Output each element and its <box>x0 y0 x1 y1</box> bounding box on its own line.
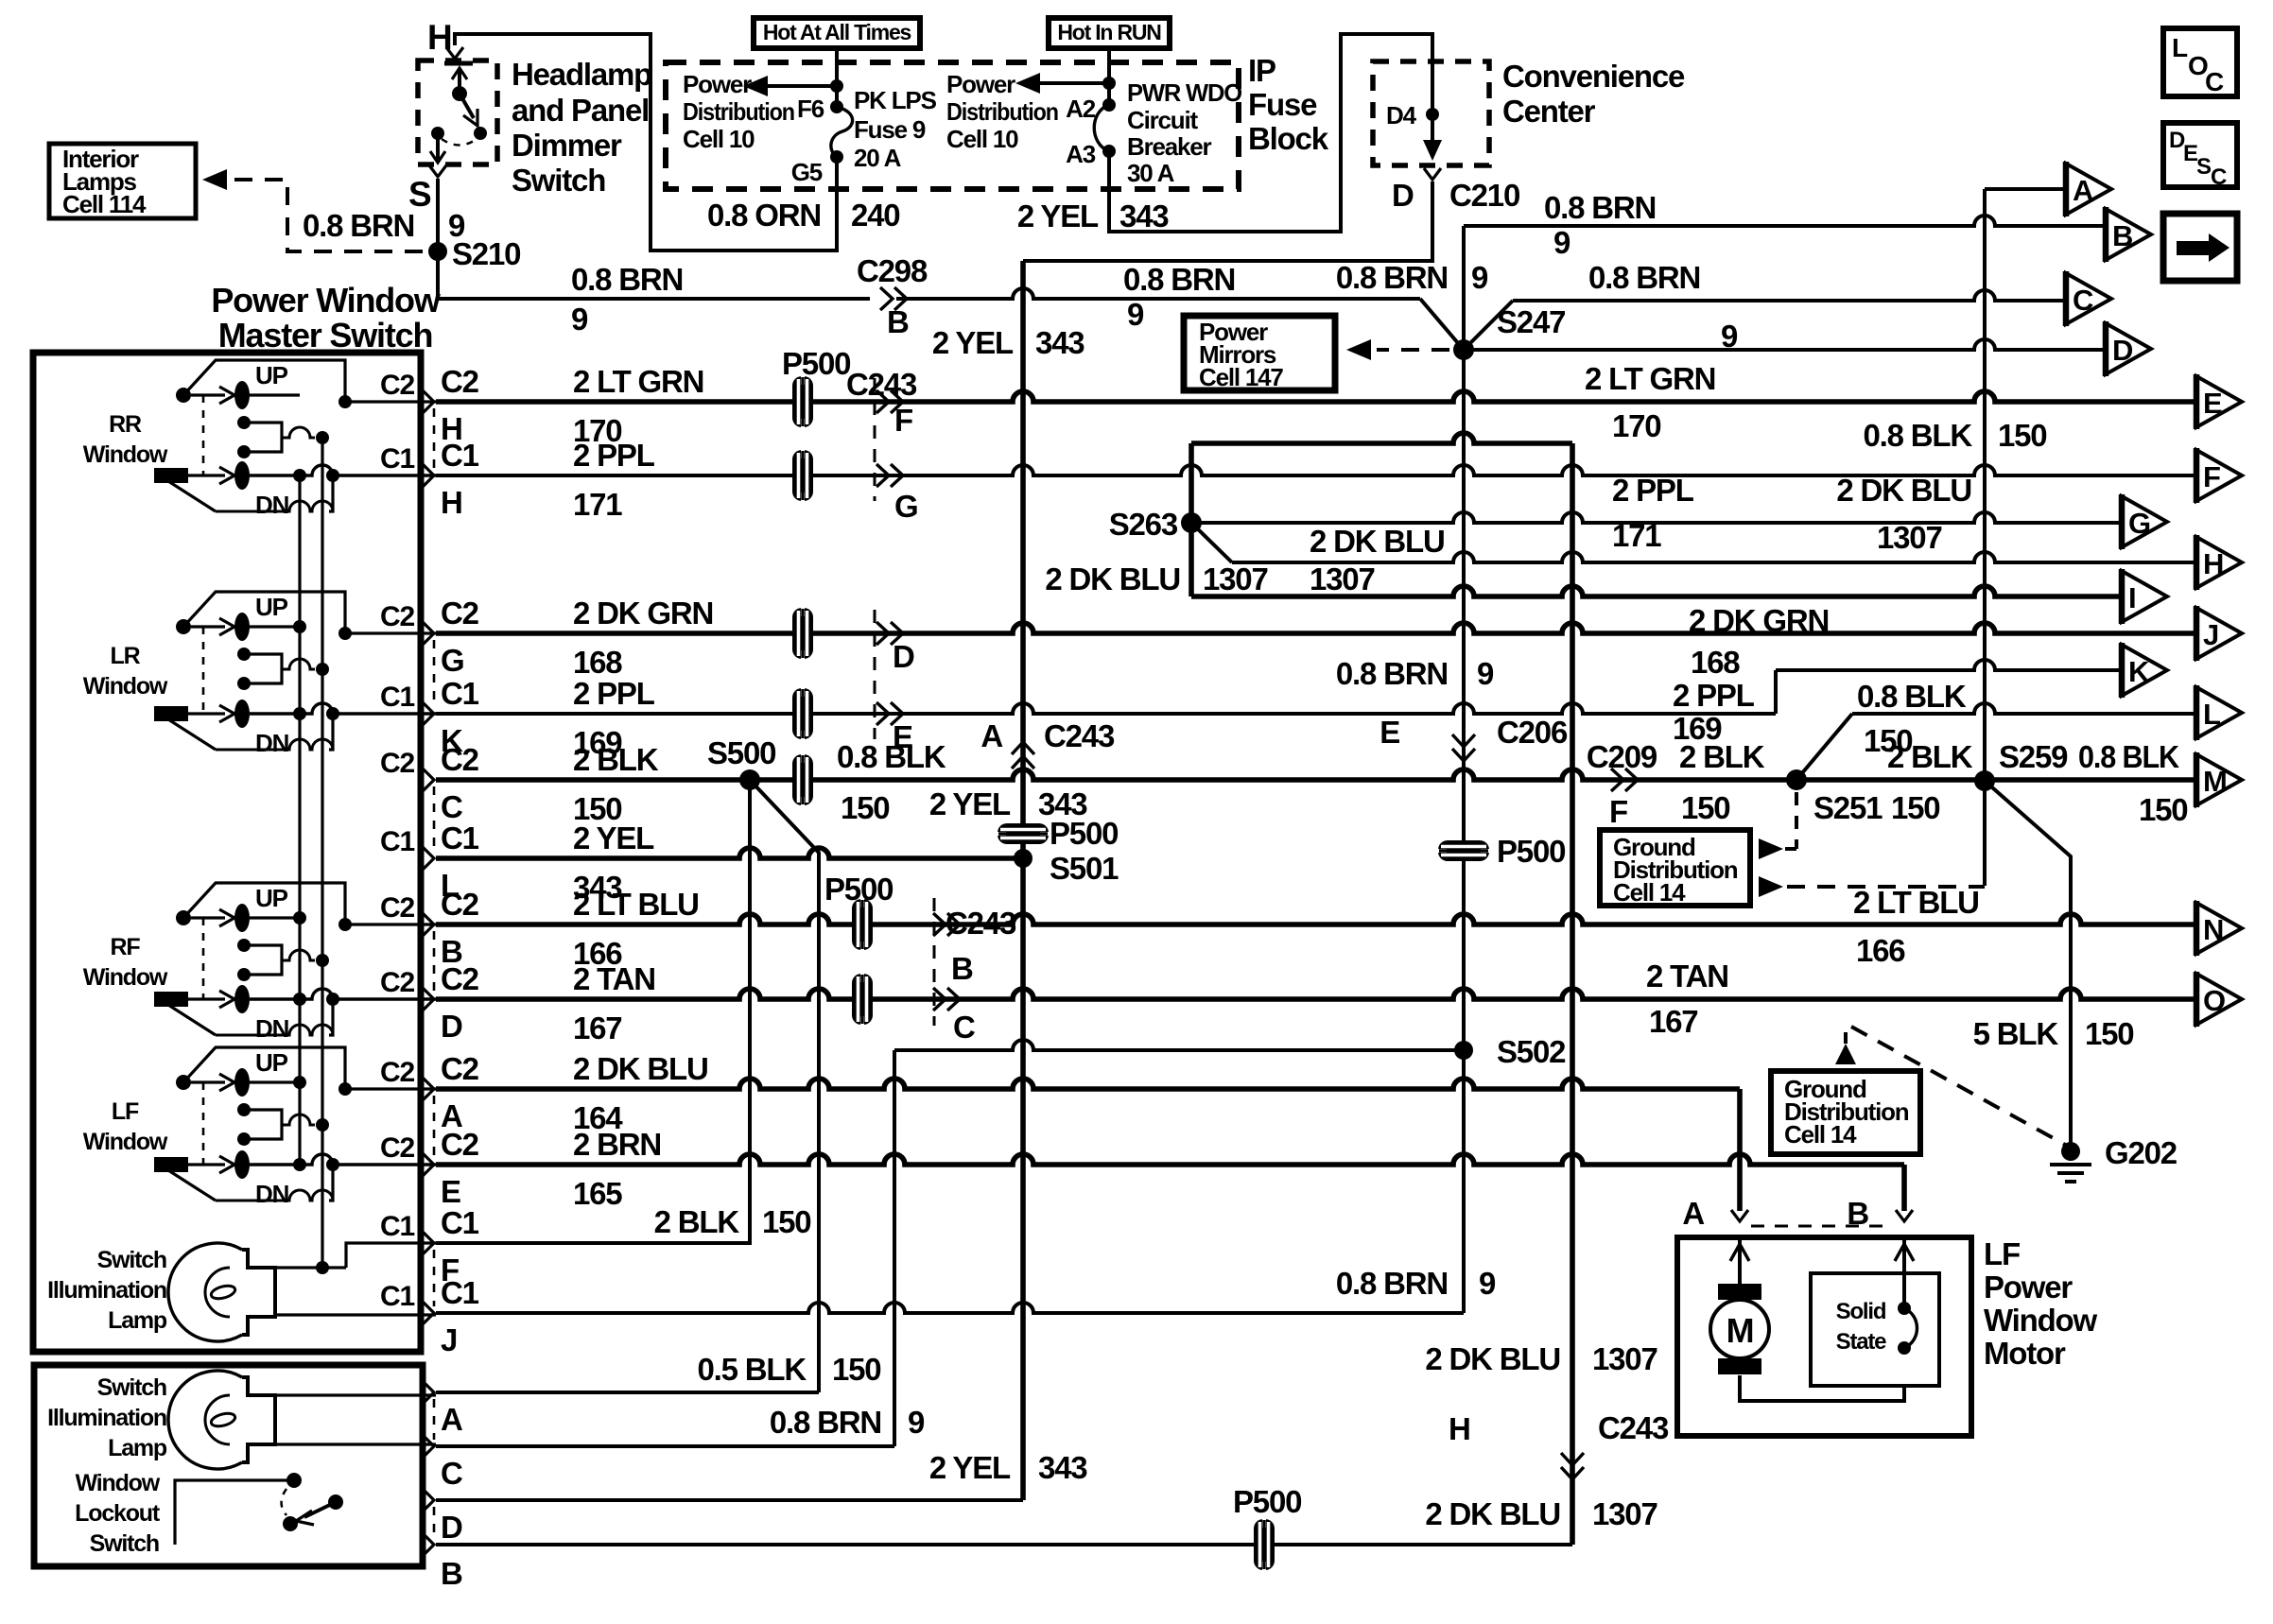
lower lamp bottom terminal wire <box>275 1443 436 1445</box>
LR window switch UP contact row <box>176 613 306 641</box>
svg-text:Convenience: Convenience <box>1502 59 1685 94</box>
LR dashed actuator link <box>202 627 205 714</box>
splice S247 <box>1453 339 1474 360</box>
svg-text:H: H <box>1449 1411 1470 1446</box>
dimmer switch contact dot S <box>431 127 444 140</box>
row pin B y978 labels <box>380 887 479 969</box>
svg-text:9: 9 <box>1127 297 1144 332</box>
svg-text:C: C <box>441 1456 462 1491</box>
Hot In RUN box <box>1049 18 1170 48</box>
motor B lead with arrow <box>1895 1237 1914 1308</box>
svg-text:Power: Power <box>1984 1270 2073 1304</box>
motor M symbol <box>1710 1284 1769 1374</box>
svg-text:H: H <box>441 485 462 520</box>
svg-text:2 BLK: 2 BLK <box>1679 739 1765 774</box>
svg-text:S251: S251 <box>1813 790 1883 825</box>
svg-text:Lockout: Lockout <box>75 1500 161 1527</box>
dimmer switch arrow to S terminal <box>430 137 445 163</box>
dashed connector line at motor <box>1751 1225 1893 1228</box>
svg-text:A: A <box>980 718 1002 753</box>
dimmer switch pivot dot <box>452 86 467 101</box>
svg-text:0.8 BRN: 0.8 BRN <box>571 262 683 297</box>
svg-text:Window: Window <box>83 1129 168 1155</box>
svg-text:150: 150 <box>1864 723 1912 758</box>
svg-text:2 BLK: 2 BLK <box>654 1204 740 1239</box>
svg-text:C2: C2 <box>441 887 479 922</box>
svg-text:S263: S263 <box>1109 507 1178 542</box>
row pin L y908 labels <box>380 821 479 903</box>
svg-text:Cell 14: Cell 14 <box>1784 1120 1857 1149</box>
connector chevron H <box>446 47 463 59</box>
svg-text:Solid: Solid <box>1836 1299 1886 1324</box>
LOC legend box <box>2163 28 2237 96</box>
svg-text:C1: C1 <box>380 682 414 713</box>
splice S500 <box>739 769 760 790</box>
svg-text:150: 150 <box>762 1204 810 1239</box>
svg-text:Block: Block <box>1248 121 1329 156</box>
solid state box <box>1811 1273 1939 1386</box>
svg-text:1307: 1307 <box>1592 1341 1657 1376</box>
RF DN contact row <box>154 985 436 1013</box>
dashed connector boundary links at box edge <box>433 408 436 1306</box>
label Ground Distribution Cell 14 lower <box>1784 1075 1909 1149</box>
connector chevron row K y755 <box>422 701 434 726</box>
svg-text:150: 150 <box>1681 790 1729 825</box>
vertical wire 0.8 BLK 150 to S259 <box>1983 189 1987 886</box>
motor connector chevron B <box>1896 1210 1913 1221</box>
svg-text:2 DK BLU: 2 DK BLU <box>1045 561 1180 596</box>
svg-text:Switch: Switch <box>90 1530 159 1557</box>
splice S259 <box>1974 770 1995 791</box>
wire into D4 <box>1431 57 1434 114</box>
wire hot-in-run feed to breaker A2 <box>1107 48 1111 105</box>
connector chevron row A y1152 <box>422 1077 434 1101</box>
svg-text:9: 9 <box>908 1405 925 1440</box>
wire row 164 2 DK BLU <box>436 1079 1740 1089</box>
wire row 165 2 BRN <box>436 1154 1904 1165</box>
connector C298 <box>880 287 893 310</box>
svg-text:Distribution: Distribution <box>946 97 1058 126</box>
svg-text:UP: UP <box>255 593 288 621</box>
LF dashed actuator link <box>202 1082 205 1165</box>
svg-text:Center: Center <box>1502 94 1596 129</box>
RR dashed actuator link <box>202 395 205 475</box>
connector C243 B on row N <box>933 913 946 936</box>
LR window label <box>83 643 168 700</box>
svg-text:DN: DN <box>255 1180 289 1208</box>
connector C243 E on row K <box>876 702 889 725</box>
internal vertical wire common 2 <box>321 438 323 1268</box>
splice S502 <box>1454 1041 1473 1060</box>
RR window switch UP contact row <box>176 381 300 409</box>
label PK LPS Fuse 9 20 A <box>854 86 937 172</box>
svg-text:C1: C1 <box>441 821 479 855</box>
label Solid State <box>1836 1299 1887 1355</box>
lower lamp top terminal wire <box>275 1393 436 1396</box>
svg-text:Switch: Switch <box>97 1374 166 1401</box>
motor A lead with arrow <box>1730 1237 1749 1284</box>
svg-text:C1: C1 <box>441 438 479 473</box>
connector C243 F on row E <box>876 390 889 413</box>
svg-text:C298: C298 <box>857 253 928 288</box>
svg-text:UP: UP <box>255 1048 288 1077</box>
label Convenience Center <box>1502 59 1685 129</box>
label Power Distribution Cell 10 left <box>683 70 794 153</box>
svg-text:RF: RF <box>111 934 141 960</box>
svg-text:D: D <box>893 639 914 674</box>
LF slant bottom wire <box>168 1158 339 1201</box>
svg-text:Dimmer: Dimmer <box>512 128 622 163</box>
arrow to Power Mirrors <box>1346 339 1371 360</box>
wire 0.8 BRN 9 from C210 down to junction with V1 <box>1023 181 1432 261</box>
splice S263 <box>1181 512 1202 533</box>
svg-text:2 DK BLU: 2 DK BLU <box>1836 473 1971 508</box>
wire row M 2 BLK 150 <box>436 769 2196 780</box>
svg-text:167: 167 <box>1649 1004 1697 1039</box>
svg-text:Hot In RUN: Hot In RUN <box>1057 20 1161 44</box>
svg-text:20 A: 20 A <box>854 144 902 172</box>
svg-text:2 LT GRN: 2 LT GRN <box>1585 361 1715 396</box>
inline connector P500 on row K <box>792 688 813 739</box>
circuit breaker arc <box>1094 105 1109 151</box>
svg-text:171: 171 <box>1612 518 1661 553</box>
svg-text:UP: UP <box>255 884 288 912</box>
connector chevron row H y425 <box>422 389 434 414</box>
LF DN contact row <box>154 1150 436 1179</box>
inline connector P500 on row J <box>792 608 813 659</box>
svg-text:Motor: Motor <box>1984 1336 2066 1371</box>
DESC legend box <box>2163 123 2237 190</box>
upper lamp bottom terminal wire <box>275 1313 436 1316</box>
svg-text:C: C <box>2073 284 2093 317</box>
svg-text:C: C <box>2205 67 2224 96</box>
breaker terminal A2 <box>1102 98 1116 112</box>
svg-text:P500: P500 <box>782 346 850 381</box>
svg-text:B: B <box>951 951 973 986</box>
svg-text:Cell 10: Cell 10 <box>946 125 1018 153</box>
connector chevron S <box>429 165 446 177</box>
svg-text:0.8 ORN: 0.8 ORN <box>707 198 821 233</box>
svg-text:D: D <box>441 1510 462 1545</box>
svg-text:166: 166 <box>1856 933 1905 968</box>
svg-text:C1: C1 <box>441 676 479 711</box>
lower box row D 2 YEL 343 <box>422 1488 1023 1545</box>
window lockout switch label <box>75 1470 161 1557</box>
connector chevron row J y1389 <box>422 1301 434 1325</box>
svg-text:2 DK BLU: 2 DK BLU <box>573 1051 708 1086</box>
svg-text:C1: C1 <box>380 1211 414 1242</box>
row pin H y425 labels <box>380 364 479 446</box>
svg-text:State: State <box>1836 1329 1887 1355</box>
dashed connector line C243 rows JK <box>874 610 876 739</box>
svg-text:O: O <box>2203 984 2225 1017</box>
svg-text:Window: Window <box>83 673 168 700</box>
svg-text:C1: C1 <box>380 443 414 475</box>
svg-text:G: G <box>894 489 917 524</box>
connector C243 H on V3 <box>1561 1453 1584 1465</box>
svg-text:9: 9 <box>571 302 588 337</box>
wire row J 2 DK GRN 168 <box>436 623 2196 633</box>
svg-text:2 PPL: 2 PPL <box>573 676 655 711</box>
svg-text:DN: DN <box>255 729 289 757</box>
svg-text:DN: DN <box>255 1014 289 1043</box>
RF slant bottom wire <box>168 993 339 1035</box>
svg-text:Cell 14: Cell 14 <box>1613 878 1686 907</box>
row pin G y670 labels <box>380 596 479 678</box>
wire row N 2 LT BLU 166 <box>436 914 2196 924</box>
wire 0.8 BRN 9 from S210 to C298 to S247 <box>438 288 1464 350</box>
svg-text:C2: C2 <box>380 967 414 998</box>
svg-text:2 PPL: 2 PPL <box>1673 678 1755 713</box>
destination arrow C <box>2066 271 2111 326</box>
svg-text:2 BLK: 2 BLK <box>573 742 659 777</box>
svg-text:0.5 BLK: 0.5 BLK <box>698 1352 807 1387</box>
svg-text:C1: C1 <box>380 826 414 857</box>
LF window label <box>83 1098 168 1155</box>
svg-text:DN: DN <box>255 491 289 519</box>
splice S210 <box>428 242 447 261</box>
row pin H y503 labels <box>380 438 479 520</box>
svg-text:C2: C2 <box>380 1057 414 1088</box>
svg-text:2 DK BLU: 2 DK BLU <box>1425 1496 1560 1531</box>
svg-text:F: F <box>1609 794 1627 829</box>
svg-text:0.8 BRN: 0.8 BRN <box>1336 260 1448 295</box>
svg-text:H: H <box>2203 547 2223 580</box>
inline connector P500 on vertical 1548 <box>1438 840 1489 861</box>
svg-text:2 TAN: 2 TAN <box>1646 959 1728 993</box>
svg-text:E: E <box>1379 715 1399 750</box>
switch illumination lamp lower label <box>47 1374 167 1461</box>
RR center contacts <box>237 416 329 458</box>
svg-text:0.8 BLK: 0.8 BLK <box>837 739 946 774</box>
connector C243 G on row F <box>876 464 889 487</box>
svg-text:0.8 BRN: 0.8 BRN <box>770 1405 881 1440</box>
wire row O 2 TAN 167 <box>436 989 2196 999</box>
arrow above lower ground distribution box <box>1835 1044 1856 1064</box>
connector C243 A on V1 <box>1012 756 1034 769</box>
svg-text:A3: A3 <box>1066 140 1096 168</box>
svg-text:UP: UP <box>255 361 288 389</box>
svg-text:LR: LR <box>111 643 141 669</box>
RR slant top wire to C2 exit <box>183 360 436 408</box>
svg-text:0.8 BRN: 0.8 BRN <box>1336 656 1448 691</box>
svg-text:Cell 10: Cell 10 <box>683 125 755 153</box>
svg-text:9: 9 <box>1471 260 1488 295</box>
svg-text:G: G <box>2128 507 2150 540</box>
dashed connector line C243 rows EF <box>874 378 876 501</box>
arrow to Power Distribution left <box>743 76 837 96</box>
inline connector P500 on row O <box>852 974 873 1025</box>
svg-text:343: 343 <box>1119 199 1169 233</box>
dashed connector links lower box <box>433 1399 436 1538</box>
wire row I 2 DK BLU 1307 from S263 vertical <box>1191 586 2122 596</box>
svg-text:M: M <box>2203 765 2227 798</box>
wire row 150 2 BLK to S500 vertical <box>436 786 750 1243</box>
RF window label <box>83 934 168 991</box>
Interior Lamps Cell 114 box <box>49 144 196 218</box>
dimmer switch dashed travel arc <box>442 139 477 146</box>
svg-text:Window: Window <box>76 1470 161 1496</box>
window lockout switch <box>175 1473 343 1545</box>
destination arrow O <box>2196 972 2242 1027</box>
wire diagonal S251 to L row 0.8 BLK <box>1796 703 2196 780</box>
connector chevron row H y503 <box>422 463 434 488</box>
label Power Distribution Cell 10 right <box>946 70 1058 153</box>
LF window switch UP contact row <box>176 1068 306 1097</box>
svg-text:D: D <box>1392 178 1414 213</box>
svg-text:Switch: Switch <box>97 1247 166 1273</box>
svg-text:Lamp: Lamp <box>108 1307 167 1334</box>
wire 165 riser to motor B <box>1901 1165 1907 1211</box>
svg-text:2 DK GRN: 2 DK GRN <box>1689 603 1829 638</box>
svg-text:Lamp: Lamp <box>108 1435 167 1461</box>
switch illumination lamp upper bulb symbol <box>168 1243 275 1341</box>
motor connector chevron A <box>1731 1210 1748 1221</box>
dimmer switch arrow to H contact <box>452 68 467 92</box>
terminal dot D4 <box>1426 108 1439 121</box>
svg-text:RR: RR <box>109 411 142 438</box>
svg-text:J: J <box>2203 618 2218 651</box>
svg-text:2 PPL: 2 PPL <box>1612 473 1694 508</box>
wire 164 riser to motor A <box>1737 1089 1743 1211</box>
wire row 2 YEL 343 to S501 <box>436 848 1023 858</box>
svg-text:S247: S247 <box>1497 304 1565 339</box>
svg-text:2 YEL: 2 YEL <box>932 325 1014 360</box>
svg-text:150: 150 <box>841 790 889 825</box>
svg-text:9: 9 <box>1479 1266 1496 1301</box>
svg-text:5 BLK: 5 BLK <box>1973 1016 2059 1051</box>
svg-text:2 LT GRN: 2 LT GRN <box>573 364 703 399</box>
switch illumination lamp upper label <box>47 1247 167 1334</box>
arrow to Interior Lamps <box>202 169 227 190</box>
svg-text:C2: C2 <box>441 1127 479 1162</box>
solid state contacts <box>1898 1302 1917 1355</box>
svg-text:2 LT BLU: 2 LT BLU <box>1853 885 1979 920</box>
svg-text:A2: A2 <box>1066 95 1096 123</box>
destination arrow N <box>2196 901 2242 956</box>
destination arrow K <box>2122 643 2167 698</box>
dimmer switch contact T-bar <box>444 61 473 66</box>
svg-text:F6: F6 <box>797 95 824 123</box>
svg-text:Power: Power <box>683 70 752 98</box>
svg-text:Breaker: Breaker <box>1127 132 1212 161</box>
svg-text:C1: C1 <box>441 1275 479 1310</box>
svg-text:0.8 BLK: 0.8 BLK <box>2078 739 2179 774</box>
wire 2 DK BLU 1307 vertical at S263 <box>1189 443 1194 596</box>
splice S251 <box>1786 769 1807 790</box>
svg-text:Window: Window <box>83 964 168 991</box>
ground distribution cell 14 box upper <box>1600 830 1750 906</box>
inline connector P500 on row M <box>792 754 813 805</box>
row pin C y825 labels <box>380 742 479 824</box>
inline connector P500 on row E <box>792 376 813 427</box>
wire row K-L 2 PPL 169 with jog to K arrow <box>436 660 2122 714</box>
RR DN contact row <box>154 461 436 490</box>
arrow from ground distribution to S251 branch <box>1759 838 1783 859</box>
svg-text:Cell 147: Cell 147 <box>1199 363 1283 391</box>
svg-text:G202: G202 <box>2105 1135 2178 1170</box>
svg-text:C2: C2 <box>380 601 414 632</box>
destination arrow G <box>2122 494 2167 549</box>
svg-text:C2: C2 <box>441 596 479 631</box>
svg-text:165: 165 <box>573 1176 622 1211</box>
svg-text:C2: C2 <box>380 748 414 779</box>
fuse terminal G5 <box>830 150 843 164</box>
svg-text:30 A: 30 A <box>1127 159 1175 187</box>
power window master switch box <box>33 353 421 1352</box>
vertical wire 0.8 BRN 9 S247 to S502 to J-row corner <box>1462 350 1466 1313</box>
connector C209 on row M <box>1611 769 1623 791</box>
svg-text:C: C <box>953 1010 975 1045</box>
svg-text:2 YEL: 2 YEL <box>573 821 654 855</box>
svg-text:A: A <box>2073 174 2093 207</box>
RF dashed actuator link <box>202 918 205 999</box>
svg-text:C209: C209 <box>1587 739 1657 774</box>
connector chevron row C y825 <box>422 768 434 792</box>
wire 0.8 BRN 9 branch to B arrow <box>1464 216 2106 226</box>
svg-text:2 PPL: 2 PPL <box>573 438 655 473</box>
svg-text:Window: Window <box>1984 1303 2097 1338</box>
svg-text:LF: LF <box>1984 1236 2020 1271</box>
svg-text:IP: IP <box>1248 53 1275 88</box>
connector chevron row B y978 <box>422 912 434 937</box>
destination arrow J <box>2196 606 2242 661</box>
dashed connector line C243 A <box>1022 716 1025 739</box>
svg-text:0.8 BLK: 0.8 BLK <box>1857 679 1967 714</box>
destination arrow L <box>2196 685 2242 740</box>
LF power window motor box <box>1677 1237 1971 1436</box>
svg-text:150: 150 <box>1891 790 1939 825</box>
RR window label <box>83 411 168 468</box>
connector chevron row D y1057 <box>422 987 434 1011</box>
svg-text:C: C <box>441 789 462 824</box>
svg-text:Circuit: Circuit <box>1127 106 1198 134</box>
svg-text:Master Switch: Master Switch <box>218 316 432 354</box>
svg-text:C2: C2 <box>380 370 414 401</box>
dashed wire ground distribution to 0.8 BLK vertical <box>1787 885 1985 889</box>
destination arrow F <box>2196 448 2242 503</box>
svg-text:C: C <box>2211 164 2227 190</box>
label Interior Lamps Cell 114 <box>62 145 147 218</box>
LR center contacts <box>237 648 329 690</box>
label Ground Distribution Cell 14 upper <box>1613 833 1738 907</box>
label PWR WDO Circuit Breaker 30 A <box>1127 78 1242 187</box>
svg-text:1307: 1307 <box>1203 561 1268 596</box>
dashed wire S247 to Power Mirrors <box>1377 348 1449 352</box>
svg-text:L: L <box>2172 33 2188 62</box>
svg-text:C243: C243 <box>1598 1410 1669 1445</box>
svg-text:C206: C206 <box>1497 715 1568 750</box>
wire hot-at-all-times feed to fuse F6 <box>835 48 839 107</box>
svg-text:P500: P500 <box>1233 1484 1301 1519</box>
destination arrow B <box>2106 207 2151 262</box>
svg-text:171: 171 <box>573 487 622 522</box>
wire 0.8 ORN 240 from fuse G5 to dimmer switch H <box>455 34 837 251</box>
inline connector P500 on row N <box>852 899 873 950</box>
svg-text:Cell 114: Cell 114 <box>62 190 147 218</box>
internal vertical wire common 1 <box>298 471 301 1165</box>
svg-text:PK LPS: PK LPS <box>854 86 937 114</box>
convenience center dashed box <box>1373 61 1489 165</box>
svg-text:Illumination: Illumination <box>47 1277 166 1304</box>
svg-text:C1: C1 <box>441 1205 479 1240</box>
svg-text:2 DK GRN: 2 DK GRN <box>573 596 713 631</box>
motor internal bottom wire <box>1740 1375 1904 1401</box>
svg-text:D4: D4 <box>1386 101 1417 130</box>
ground G202 symbol <box>2050 1142 2091 1182</box>
RR slant bottom wire <box>168 469 339 511</box>
splice S501 <box>1014 849 1032 868</box>
